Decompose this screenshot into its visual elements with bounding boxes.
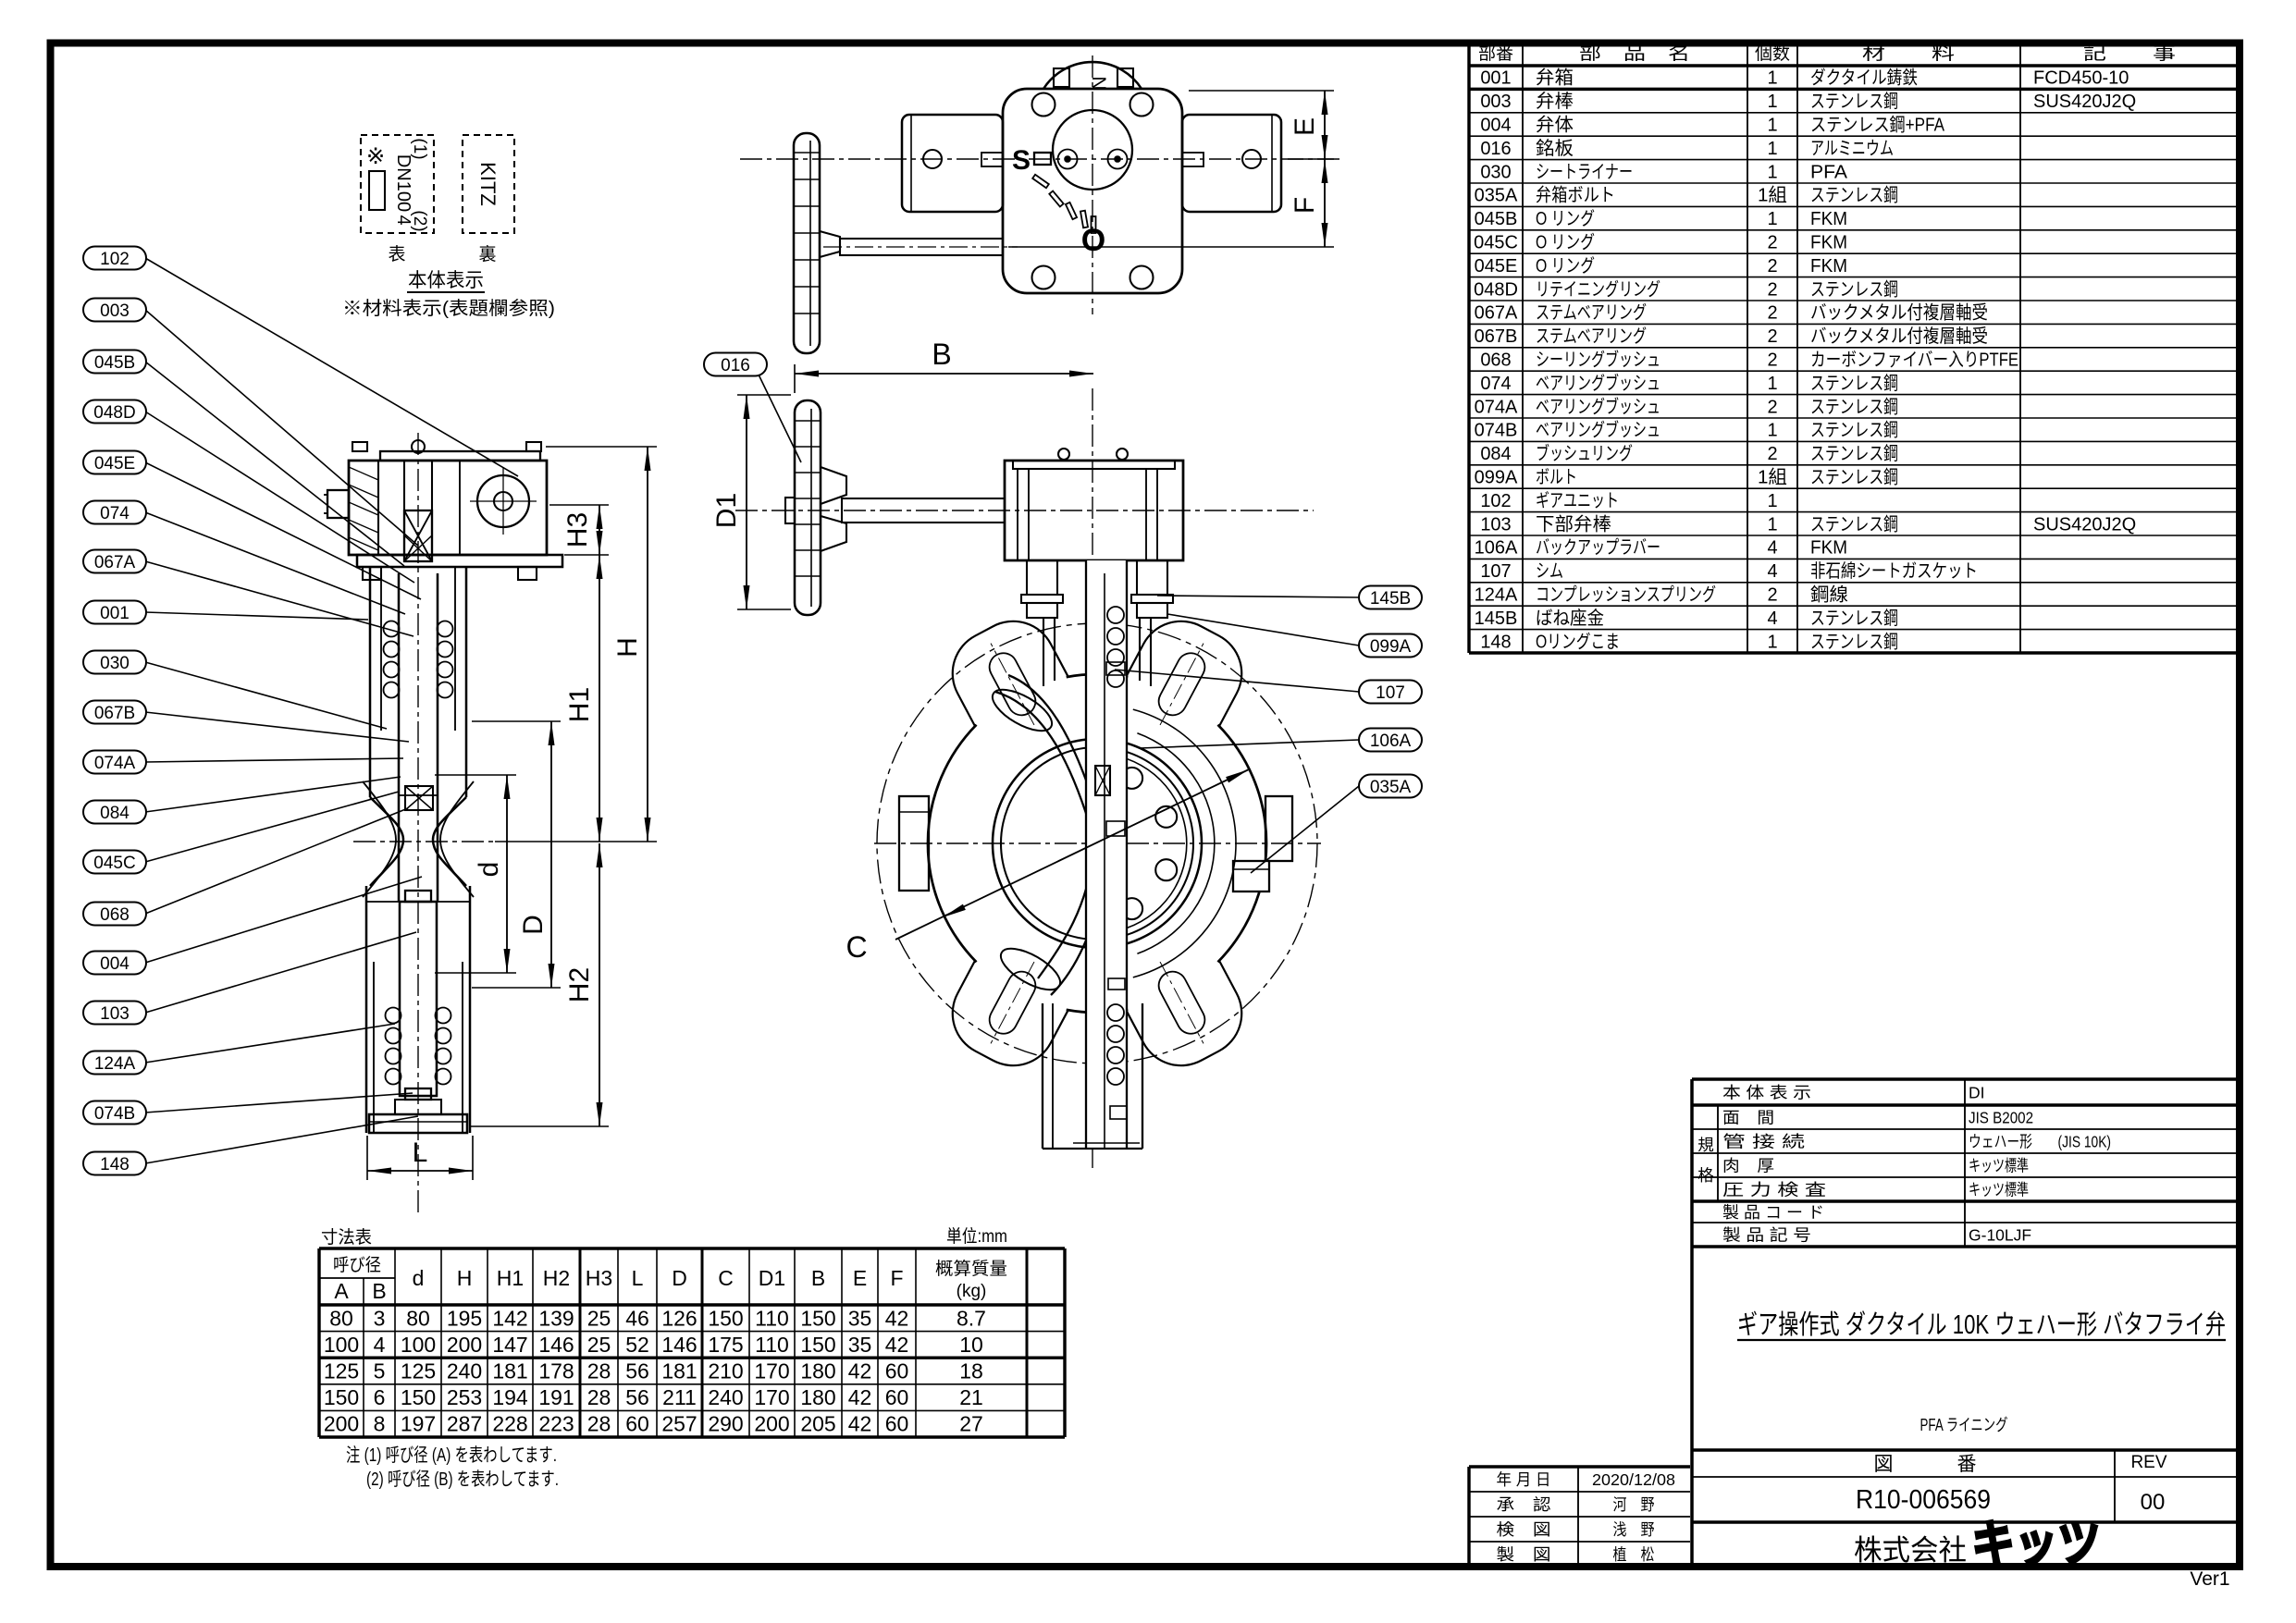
hatch [349, 485, 378, 498]
svg-text:60: 60 [625, 1412, 649, 1436]
svg-text:200: 200 [447, 1333, 482, 1357]
svg-text:001: 001 [1480, 68, 1511, 89]
svg-text:肉 厚: 肉 厚 [1722, 1157, 1774, 1175]
flange ear -118 [938, 607, 1069, 727]
svg-text:2: 2 [1767, 350, 1777, 371]
svg-text:180: 180 [800, 1385, 835, 1409]
svg-text:2: 2 [1767, 256, 1777, 277]
svg-text:株式会社: 株式会社 [1854, 1534, 1967, 1567]
svg-text:圧 力 検 査: 圧 力 検 査 [1722, 1181, 1826, 1199]
svg-text:6: 6 [374, 1385, 386, 1409]
svg-text:1組: 1組 [1758, 467, 1787, 488]
leader 099A [1167, 614, 1359, 646]
svg-text:030: 030 [1480, 162, 1511, 182]
svg-text:FKM: FKM [1810, 256, 1847, 277]
balloon 074 [83, 501, 146, 524]
svg-text:074B: 074B [1475, 421, 1518, 441]
svg-text:067B: 067B [1475, 326, 1518, 347]
wheel hub spokes [821, 467, 846, 504]
svg-text:ギア操作式 ダクタイル 10K ウェハー形 バタフライ弁: ギア操作式 ダクタイル 10K ウェハー形 バタフライ弁 [1737, 1309, 2226, 1340]
svg-text:A: A [334, 1279, 349, 1303]
svg-text:記 事: 記 事 [2083, 43, 2176, 64]
front gear centerline [735, 510, 1314, 511]
svg-text:110: 110 [755, 1306, 789, 1330]
top dome [412, 440, 425, 453]
svg-text:バックアップラバー: バックアップラバー [1536, 537, 1660, 559]
balloon 048D [83, 400, 146, 424]
dim D [550, 721, 552, 988]
title block [1690, 1079, 1694, 1567]
svg-text:28: 28 [587, 1385, 611, 1409]
svg-text:56: 56 [625, 1385, 649, 1409]
balloon 068 [83, 903, 146, 926]
svg-text:注 (1) 呼び径 (A) を表わしてます.: 注 (1) 呼び径 (A) を表わしてます. [346, 1445, 557, 1466]
flange bolt L [363, 567, 381, 580]
svg-text:2: 2 [1767, 444, 1777, 464]
svg-text:211: 211 [662, 1385, 697, 1409]
svg-text:223: 223 [538, 1412, 574, 1436]
flange bolt R [518, 567, 537, 580]
svg-text:管 接 続: 管 接 続 [1722, 1133, 1805, 1151]
svg-text:ステンレス鋼: ステンレス鋼 [1810, 420, 1898, 441]
svg-text:175: 175 [708, 1333, 743, 1357]
svg-text:ウェハー形 (JIS 10K): ウェハー形 (JIS 10K) [1969, 1133, 2111, 1151]
svg-text:52: 52 [625, 1333, 649, 1357]
dim H1 [599, 555, 600, 842]
svg-text:60: 60 [885, 1359, 909, 1383]
svg-text:Ver1: Ver1 [2190, 1568, 2229, 1590]
svg-text:142: 142 [492, 1306, 527, 1330]
svg-text:125: 125 [324, 1359, 359, 1383]
svg-text:145B: 145B [1475, 609, 1518, 629]
svg-text:240: 240 [708, 1385, 743, 1409]
svg-text:キッツ標準: キッツ標準 [1969, 1157, 2029, 1175]
svg-text:E: E [853, 1266, 867, 1290]
svg-text:200: 200 [324, 1412, 359, 1436]
svg-text:2: 2 [1767, 326, 1777, 347]
svg-text:084: 084 [100, 804, 130, 823]
balloon 106A [1359, 729, 1422, 752]
leader line 074A [145, 758, 403, 762]
svg-text:200: 200 [754, 1412, 789, 1436]
svg-text:1: 1 [1767, 139, 1777, 159]
svg-text:バックメタル付複層軸受: バックメタル付複層軸受 [1810, 326, 1988, 347]
svg-text:呼び径: 呼び径 [333, 1255, 381, 1275]
balloon 067B [83, 701, 146, 724]
leader line 004 [145, 877, 422, 963]
svg-text:河 野: 河 野 [1613, 1495, 1655, 1514]
svg-text:290: 290 [708, 1412, 743, 1436]
svg-text:102: 102 [1480, 491, 1511, 511]
svg-text:B: B [811, 1266, 825, 1290]
body waist (hourglass) [370, 797, 403, 886]
balloon 035A [1359, 775, 1422, 798]
svg-text:42: 42 [848, 1385, 872, 1409]
svg-text:099A: 099A [1475, 468, 1518, 488]
parts list table [1467, 43, 1470, 653]
bonnet neck outline [369, 567, 372, 797]
svg-text:F: F [890, 1266, 903, 1290]
front view handwheel [795, 400, 821, 615]
svg-text:067B: 067B [94, 704, 135, 723]
svg-text:植 松: 植 松 [1613, 1545, 1655, 1564]
central stem strip [1086, 560, 1127, 1149]
lower step [1108, 978, 1125, 990]
svg-text:H3: H3 [586, 1266, 612, 1290]
svg-text:ステンレス鋼: ステンレス鋼 [1810, 396, 1898, 417]
svg-text:個数: 個数 [1755, 43, 1790, 64]
svg-text:(kg): (kg) [957, 1282, 987, 1301]
top bolt R [526, 442, 541, 451]
svg-text:074B: 074B [94, 1104, 135, 1124]
svg-text:28: 28 [587, 1412, 611, 1436]
leader line 001 [145, 612, 368, 620]
svg-text:148: 148 [100, 1155, 130, 1174]
svg-text:099A: 099A [1370, 637, 1412, 657]
svg-text:本体表示: 本体表示 [408, 270, 484, 291]
leader 145B [1157, 596, 1359, 597]
svg-text:56: 56 [625, 1359, 649, 1383]
svg-text:ブッシュリング: ブッシュリング [1536, 442, 1633, 464]
dim F [1324, 159, 1326, 247]
svg-text:PFA ライニング: PFA ライニング [1920, 1416, 2008, 1434]
front shaft [842, 498, 1005, 523]
top view handwheel edge [794, 133, 820, 353]
svg-text:045C: 045C [93, 854, 135, 873]
leader line 045E [145, 462, 421, 599]
svg-text:00: 00 [2141, 1490, 2166, 1515]
housing lower neck + nuts [1026, 560, 1028, 595]
svg-text:O リング: O リング [1536, 232, 1595, 253]
dim D1 [746, 395, 747, 609]
svg-text:DI: DI [1969, 1084, 1985, 1102]
svg-text:ベアリングブッシュ: ベアリングブッシュ [1536, 395, 1660, 417]
svg-text:ステンレス鋼: ステンレス鋼 [1810, 278, 1898, 300]
upper neck columns [1043, 618, 1044, 686]
svg-text:004: 004 [100, 954, 130, 974]
svg-text:H1: H1 [564, 687, 595, 722]
balloon 016 [704, 353, 767, 376]
svg-text:D: D [672, 1266, 687, 1290]
svg-text:D1: D1 [711, 493, 742, 528]
svg-text:承 認: 承 認 [1497, 1495, 1551, 1514]
strip X block [1095, 766, 1110, 795]
svg-text:42: 42 [885, 1306, 909, 1330]
svg-text:本 体 表 示: 本 体 表 示 [1722, 1084, 1811, 1102]
svg-text:25: 25 [587, 1333, 611, 1357]
svg-text:C: C [718, 1266, 734, 1290]
corner bolts [1032, 93, 1055, 117]
svg-text:25: 25 [587, 1306, 611, 1330]
svg-text:ボルト: ボルト [1536, 467, 1577, 488]
leader 106A [1140, 740, 1359, 748]
balloon 045E [83, 451, 146, 474]
svg-text:27: 27 [959, 1412, 983, 1436]
svg-text:001: 001 [100, 604, 130, 623]
leader line 084 [145, 777, 401, 812]
svg-text:2: 2 [1767, 585, 1777, 606]
svg-text:JIS B2002: JIS B2002 [1969, 1109, 2033, 1127]
svg-text:裏: 裏 [478, 244, 496, 264]
svg-text:8: 8 [374, 1412, 386, 1436]
leader line 102 [145, 258, 518, 476]
svg-text:191: 191 [538, 1385, 574, 1409]
hatch [349, 502, 378, 515]
svg-text:ステンレス鋼+PFA: ステンレス鋼+PFA [1810, 115, 1945, 136]
liner ring arc [1137, 733, 1214, 954]
svg-text:部番: 部番 [1478, 43, 1513, 64]
svg-text:ベアリングブッシュ: ベアリングブッシュ [1536, 372, 1660, 394]
svg-text:N: N [1088, 76, 1109, 90]
svg-text:ステンレス鋼: ステンレス鋼 [1810, 91, 1898, 112]
svg-text:8.7: 8.7 [957, 1306, 986, 1330]
bottom nut [1110, 1106, 1127, 1119]
svg-text:ステンレス鋼: ステンレス鋼 [1810, 608, 1898, 629]
svg-text:規: 規 [1697, 1136, 1714, 1154]
svg-text:H: H [612, 637, 643, 658]
svg-text:シーリングブッシュ: シーリングブッシュ [1536, 349, 1660, 371]
svg-text:80: 80 [406, 1306, 430, 1330]
svg-text:2020/12/08: 2020/12/08 [1592, 1470, 1675, 1489]
svg-text:150: 150 [324, 1385, 359, 1409]
svg-text:製 品 記 号: 製 品 記 号 [1722, 1226, 1811, 1245]
svg-text:1: 1 [1767, 209, 1777, 229]
side tabs [899, 796, 929, 891]
svg-text:H: H [457, 1266, 473, 1290]
flange ear 118 [938, 960, 1069, 1080]
leader line 003 [145, 310, 418, 546]
svg-text:1: 1 [1767, 116, 1777, 136]
svg-text:074A: 074A [1475, 397, 1518, 417]
svg-text:鋼線: 鋼線 [1810, 584, 1848, 606]
disc rings [993, 739, 1202, 948]
svg-text:42: 42 [848, 1359, 872, 1383]
packing gland X-hatch [404, 510, 432, 561]
svg-text:O: O [1081, 223, 1105, 258]
leader line 074B [145, 1093, 413, 1113]
svg-text:074: 074 [1480, 374, 1511, 394]
svg-text:4: 4 [374, 1333, 386, 1357]
svg-text:181: 181 [492, 1359, 527, 1383]
svg-text:240: 240 [447, 1359, 482, 1383]
svg-text:R10-006569: R10-006569 [1856, 1485, 1991, 1515]
svg-text:(2): (2) [410, 210, 429, 231]
cap bolt R [1117, 68, 1133, 87]
svg-text:102: 102 [100, 250, 130, 269]
dim E [1324, 91, 1326, 159]
balloon 074B [83, 1101, 146, 1125]
svg-text:42: 42 [885, 1333, 909, 1357]
svg-text:H2: H2 [564, 967, 595, 1002]
svg-text:ステムベアリング: ステムベアリング [1536, 326, 1647, 347]
svg-text:キッツ: キッツ [1972, 1517, 2101, 1572]
svg-text:5: 5 [374, 1359, 386, 1383]
top view centerlines [740, 158, 1343, 160]
svg-text:205: 205 [800, 1412, 835, 1436]
svg-text:35: 35 [848, 1333, 872, 1357]
svg-text:103: 103 [100, 1004, 130, 1024]
svg-text:D1: D1 [759, 1266, 785, 1290]
svg-text:ステンレス鋼: ステンレス鋼 [1810, 443, 1898, 464]
svg-text:アルミニウム: アルミニウム [1810, 139, 1894, 159]
svg-text:番: 番 [1957, 1454, 1977, 1475]
lower body outline [365, 886, 368, 1133]
svg-text:035A: 035A [1475, 186, 1518, 206]
strip springs [1107, 607, 1124, 623]
svg-text:21: 21 [959, 1385, 983, 1409]
housing bottom flange [357, 555, 562, 567]
worm wheel [477, 475, 529, 527]
dim H2 [599, 843, 600, 1126]
svg-text:H1: H1 [497, 1266, 524, 1290]
svg-text:42: 42 [848, 1412, 872, 1436]
svg-text:検 図: 検 図 [1497, 1520, 1551, 1539]
svg-text:KITZ: KITZ [476, 162, 500, 206]
balloon 145B [1359, 586, 1422, 609]
lower neck [1042, 1003, 1043, 1149]
svg-text:Oリングこま: Oリングこま [1536, 631, 1620, 652]
svg-text:※材料表示(表題欄参照): ※材料表示(表題欄参照) [342, 298, 555, 319]
svg-text:100: 100 [324, 1333, 359, 1357]
svg-text:1: 1 [1767, 421, 1777, 441]
top bolt L [352, 442, 367, 451]
top view big circle [1053, 110, 1132, 190]
top view gear housing [1003, 89, 1182, 293]
balloon 074A [83, 751, 146, 774]
svg-text:※: ※ [366, 144, 385, 169]
svg-text:139: 139 [538, 1306, 574, 1330]
svg-text:面 間: 面 間 [1722, 1109, 1774, 1127]
leader line 124A [145, 1024, 395, 1063]
svg-text:287: 287 [447, 1412, 482, 1436]
svg-text:ステンレス鋼: ステンレス鋼 [1810, 185, 1898, 206]
disc bolt holes [1121, 768, 1142, 789]
C dimension [895, 769, 1249, 940]
balloon 124A [83, 1051, 146, 1075]
svg-text:170: 170 [754, 1385, 789, 1409]
svg-text:PFA: PFA [1810, 162, 1848, 182]
svg-text:O リング: O リング [1536, 255, 1595, 277]
svg-text:46: 46 [625, 1306, 649, 1330]
balloon 102 [83, 247, 146, 270]
svg-text:1: 1 [1767, 68, 1777, 89]
svg-text:048D: 048D [93, 403, 135, 423]
gear top plate [380, 451, 540, 461]
svg-text:4: 4 [1767, 561, 1777, 582]
svg-text:H2: H2 [543, 1266, 570, 1290]
balloon 016 leader [759, 375, 801, 462]
front view centerlines [874, 842, 1321, 844]
svg-text:147: 147 [492, 1333, 527, 1357]
leader line 148 [145, 1116, 418, 1163]
svg-text:d: d [474, 862, 504, 878]
leader 107 [1115, 670, 1359, 692]
svg-text:SUS420J2Q: SUS420J2Q [2033, 92, 2136, 112]
svg-text:寸法表: 寸法表 [321, 1227, 372, 1248]
svg-text:60: 60 [885, 1412, 909, 1436]
svg-text:103: 103 [1480, 514, 1511, 535]
balloon 045C [83, 851, 146, 874]
leader line 045B [145, 362, 404, 566]
svg-text:181: 181 [661, 1359, 697, 1383]
leader line 068 [145, 808, 408, 914]
svg-text:150: 150 [708, 1306, 743, 1330]
svg-text:003: 003 [1480, 92, 1511, 112]
svg-text:045B: 045B [94, 353, 135, 373]
svg-text:210: 210 [708, 1359, 743, 1383]
svg-text:銘板: 銘板 [1536, 138, 1574, 159]
svg-text:B: B [372, 1279, 386, 1303]
leader 035A [1251, 786, 1359, 873]
svg-text:068: 068 [1480, 350, 1511, 371]
svg-text:FKM: FKM [1810, 538, 1847, 559]
hatch [349, 467, 378, 480]
svg-text:194: 194 [492, 1385, 528, 1409]
drawing number block [1692, 1448, 2239, 1452]
balloon 099A [1359, 634, 1422, 658]
dim H3 [599, 505, 600, 555]
svg-text:068: 068 [100, 905, 130, 925]
svg-text:035A: 035A [1370, 778, 1412, 797]
svg-text:084: 084 [1480, 444, 1511, 464]
gear housing body [349, 461, 547, 555]
svg-text:年 月 日: 年 月 日 [1497, 1470, 1551, 1489]
svg-text:2: 2 [1767, 233, 1777, 253]
svg-text:145B: 145B [1370, 589, 1411, 609]
svg-text:1: 1 [1767, 491, 1777, 511]
svg-text:170: 170 [754, 1359, 789, 1383]
svg-text:DN100: DN100 [393, 154, 414, 212]
dim d [506, 775, 508, 973]
svg-text:124A: 124A [94, 1054, 136, 1074]
disc hub / lower stem [405, 891, 431, 902]
leader line 030 [145, 662, 387, 729]
svg-text:067A: 067A [94, 553, 136, 572]
svg-text:ステムベアリング: ステムベアリング [1536, 302, 1647, 324]
svg-text:146: 146 [661, 1333, 697, 1357]
balloon 067A [83, 550, 146, 573]
butterfly disc S-profile [995, 692, 1093, 837]
svg-text:FKM: FKM [1810, 209, 1847, 229]
lug bolt 035A [1233, 861, 1269, 891]
leader line 067A [145, 561, 414, 636]
svg-text:28: 28 [587, 1359, 611, 1383]
svg-text:図: 図 [1874, 1454, 1894, 1475]
svg-text:弁棒: 弁棒 [1536, 91, 1574, 112]
left view horizontal centerline [353, 841, 493, 842]
svg-text:非石綿シートガスケット: 非石綿シートガスケット [1810, 560, 1978, 582]
svg-text:1: 1 [1767, 92, 1777, 112]
nameplate window rect [369, 171, 385, 210]
svg-text:045C: 045C [1474, 233, 1518, 253]
leader line 067B [145, 712, 409, 742]
side mounting plates [902, 115, 1003, 212]
svg-text:030: 030 [100, 654, 130, 673]
svg-text:REV: REV [2130, 1453, 2166, 1472]
svg-text:B: B [932, 338, 951, 371]
svg-text:FKM: FKM [1810, 233, 1847, 253]
tab L [981, 153, 1003, 166]
svg-text:35: 35 [848, 1306, 872, 1330]
svg-text:067A: 067A [1475, 303, 1518, 324]
svg-text:197: 197 [401, 1412, 436, 1436]
svg-text:106A: 106A [1475, 538, 1518, 559]
svg-text:1: 1 [1767, 632, 1777, 652]
cap bolt L [1054, 68, 1069, 87]
svg-text:60: 60 [885, 1385, 909, 1409]
svg-text:浅 野: 浅 野 [1613, 1520, 1655, 1539]
shim step [1106, 662, 1125, 675]
